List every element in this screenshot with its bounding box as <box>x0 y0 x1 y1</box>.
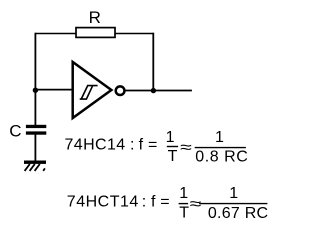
svg-text::: : <box>142 194 146 211</box>
svg-text:f: f <box>139 137 144 154</box>
svg-text:1: 1 <box>229 185 238 202</box>
svg-text:≈: ≈ <box>190 196 202 213</box>
svg-text:C: C <box>9 122 21 141</box>
svg-text:74HC14: 74HC14 <box>65 137 126 154</box>
svg-text:T: T <box>168 148 178 165</box>
svg-text:=: = <box>160 194 169 211</box>
svg-text:1: 1 <box>166 129 175 146</box>
svg-text:=: = <box>148 137 157 154</box>
svg-text:0.67 RC: 0.67 RC <box>208 205 268 222</box>
svg-text:1: 1 <box>179 185 188 202</box>
svg-text:T: T <box>179 204 189 221</box>
svg-text:R: R <box>89 8 101 27</box>
svg-text::: : <box>130 137 134 154</box>
svg-text:≈: ≈ <box>180 139 192 156</box>
svg-text:1: 1 <box>215 129 224 146</box>
svg-text:74HCT14: 74HCT14 <box>67 194 139 211</box>
svg-text:0.8 RC: 0.8 RC <box>195 149 248 166</box>
svg-text:f: f <box>151 194 156 211</box>
